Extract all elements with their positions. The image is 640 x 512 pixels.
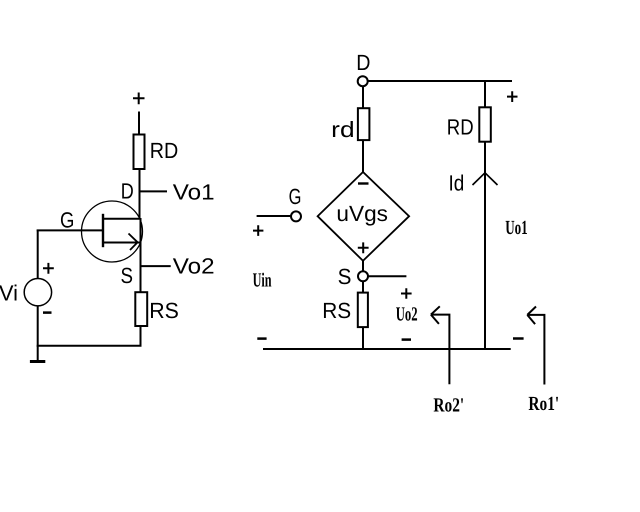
plus mark top right xyxy=(507,91,518,102)
svg-text:Vi: Vi xyxy=(0,280,18,305)
arrow Ro2' probe xyxy=(431,306,450,384)
wire Vi bottom to bus xyxy=(37,306,39,347)
wire S node to the right xyxy=(369,275,407,277)
svg-text:RS: RS xyxy=(322,298,351,323)
minus mark left of bus xyxy=(257,337,266,340)
transistor drain channel line xyxy=(103,218,141,220)
resistor RS (left) xyxy=(135,292,147,326)
plus mark at Vi xyxy=(43,263,54,274)
minus mark right of bus xyxy=(513,337,524,340)
svg-text:RD: RD xyxy=(447,115,474,140)
wire RD to transistor drain xyxy=(139,169,141,219)
svg-text:RS: RS xyxy=(149,298,179,323)
wire RD down to ground bus (Id branch) xyxy=(484,142,486,350)
transistor Q1 body circle xyxy=(82,201,143,262)
svg-text:RD: RD xyxy=(150,138,179,163)
wire drain to source side (vertical right of transistor) xyxy=(140,218,142,293)
svg-text:G: G xyxy=(60,208,74,233)
plus mark at G input xyxy=(253,225,263,236)
wire RS to ground bus (right) xyxy=(362,327,364,350)
svg-text:rd: rd xyxy=(331,117,354,142)
svg-text:Ro1': Ro1' xyxy=(528,393,559,415)
dependent source uVgs diamond xyxy=(318,172,410,261)
node S tick wire to Vo2 xyxy=(140,265,171,267)
svg-text:Vo1: Vo1 xyxy=(173,180,215,205)
svg-text:uVgs: uVgs xyxy=(336,201,388,226)
plus mark inside diamond xyxy=(358,242,369,253)
ground bus (right circuit) xyxy=(263,348,511,350)
svg-text:Vo2: Vo2 xyxy=(173,254,215,279)
wire S node to RS (right) xyxy=(362,282,364,294)
bottom bus wire (left circuit) xyxy=(37,345,142,347)
node S open circle (right) xyxy=(358,271,368,281)
minus mark inside diamond xyxy=(358,182,369,184)
resistor RS (right) xyxy=(358,293,368,328)
arrowhead Id (pointing up) xyxy=(473,173,498,185)
svg-text:Ro2': Ro2' xyxy=(433,394,464,416)
node G open circle (right) xyxy=(291,211,301,221)
transistor source channel line xyxy=(103,242,141,244)
svg-text:Uo1: Uo1 xyxy=(505,217,528,239)
plus mark above Uo2 xyxy=(401,288,412,299)
svg-text:Uo2: Uo2 xyxy=(396,304,418,326)
svg-text:Uin: Uin xyxy=(253,269,272,291)
resistor RD (right) xyxy=(479,107,491,141)
minus mark below Uo2 xyxy=(402,338,411,341)
svg-text:S: S xyxy=(121,263,134,288)
svg-text:D: D xyxy=(356,50,370,75)
wire rd to dependent source xyxy=(362,140,364,173)
node D open circle (right) xyxy=(358,76,368,86)
ground bar xyxy=(30,360,45,363)
wire G stub xyxy=(257,215,291,217)
source Vi circle xyxy=(24,279,51,306)
ground stem xyxy=(37,346,39,361)
svg-text:D: D xyxy=(121,179,134,204)
minus mark at Vi xyxy=(43,311,52,314)
wire RS to bottom bus xyxy=(140,326,142,346)
resistor rd xyxy=(358,108,370,140)
wire supply to RD (left) xyxy=(138,112,140,135)
wire diamond bottom to S node xyxy=(362,260,364,272)
wire Vi top to gate wire xyxy=(37,230,39,279)
wire gate (left) xyxy=(37,229,103,231)
top wire D to right branch xyxy=(368,80,512,82)
svg-text:G: G xyxy=(289,184,302,209)
arrow Ro1' probe xyxy=(527,307,544,385)
resistor RD (left) xyxy=(134,135,145,170)
node D tick wire to Vo1 xyxy=(139,190,167,192)
transistor arrow xyxy=(129,234,138,251)
svg-text:Id: Id xyxy=(449,171,465,196)
transistor gate bar xyxy=(102,214,104,247)
wire D node to rd xyxy=(362,87,364,109)
svg-text:S: S xyxy=(338,264,352,289)
supply plus mark (left, top) xyxy=(133,93,145,105)
wire top junction to RD (right) xyxy=(484,81,486,108)
